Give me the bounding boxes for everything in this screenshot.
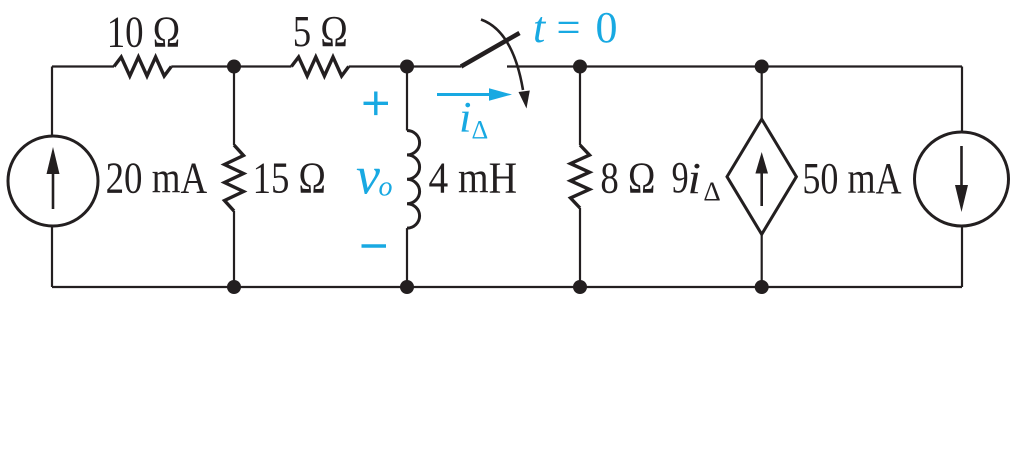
svg-text:=: = [557, 3, 581, 52]
svg-text:t: t [533, 3, 547, 52]
svg-text:i: i [459, 95, 472, 142]
svg-text:5 Ω: 5 Ω [293, 7, 348, 56]
svg-text:50 mA: 50 mA [802, 154, 901, 203]
svg-text:20 mA: 20 mA [106, 154, 208, 203]
svg-text:15 Ω: 15 Ω [253, 154, 326, 203]
svg-text:10 Ω: 10 Ω [107, 7, 181, 56]
svg-text:i: i [688, 154, 702, 203]
svg-text:9: 9 [672, 153, 689, 202]
svg-text:4 mH: 4 mH [429, 153, 518, 202]
svg-text:Δ: Δ [472, 115, 489, 144]
svg-text:Δ: Δ [703, 177, 720, 207]
svg-text:v: v [356, 145, 380, 205]
svg-text:8 Ω: 8 Ω [600, 154, 655, 203]
svg-text:0: 0 [596, 3, 618, 52]
svg-text:o: o [379, 172, 393, 203]
